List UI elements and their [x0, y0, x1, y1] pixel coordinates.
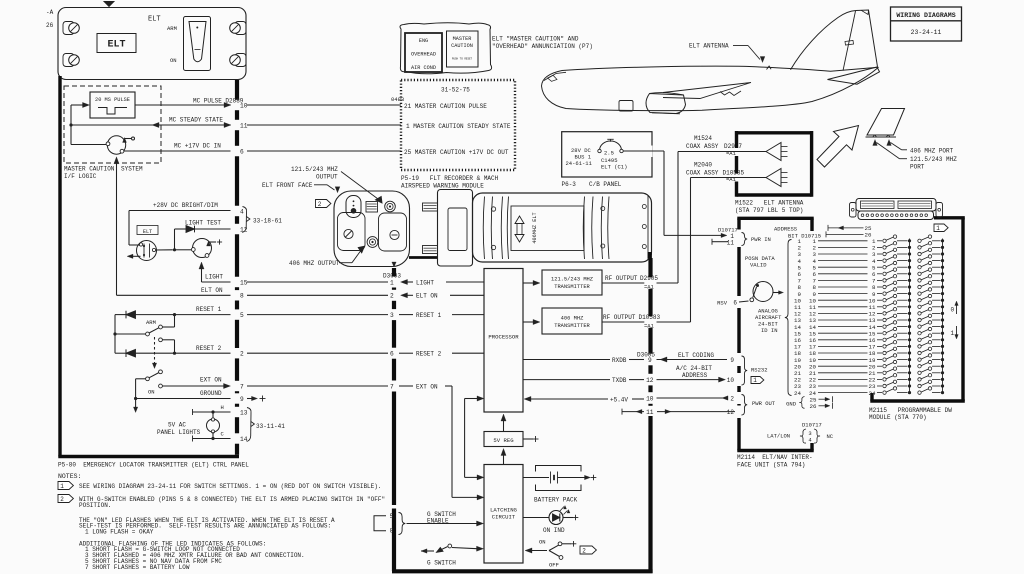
svg-text:WITH G-SWITCH ENABLED (PINS 5: WITH G-SWITCH ENABLED (PINS 5 & 8 CONNEC… — [79, 496, 385, 503]
svg-text:ENABLE: ENABLE — [427, 518, 449, 525]
svg-text:CIRCUIT: CIRCUIT — [492, 514, 516, 521]
svg-text:33-18-61: 33-18-61 — [253, 218, 282, 225]
svg-text:LATCHING: LATCHING — [490, 507, 517, 514]
svg-text:EXT ON: EXT ON — [200, 377, 222, 384]
svg-text:1 LONG FLASH = OKAY: 1 LONG FLASH = OKAY — [85, 529, 154, 536]
svg-text:P6-3: P6-3 — [562, 181, 577, 188]
svg-text:RF OUTPUT: RF OUTPUT — [605, 275, 638, 282]
svg-text:5V AC: 5V AC — [168, 422, 186, 429]
svg-text:0: 0 — [951, 307, 955, 314]
svg-text:COAX ASSY: COAX ASSY — [686, 170, 719, 177]
svg-text:ON: ON — [148, 389, 155, 396]
svg-text:ARM: ARM — [146, 319, 156, 326]
svg-text:406 MHZ OUTPUT: 406 MHZ OUTPUT — [289, 260, 340, 267]
svg-text:1: 1 — [390, 279, 394, 286]
svg-text:ID IN: ID IN — [761, 327, 778, 334]
svg-text:24: 24 — [869, 390, 876, 397]
svg-text:406 MHZ: 406 MHZ — [561, 316, 584, 322]
svg-text:4: 4 — [240, 208, 244, 215]
svg-text:RESET 1: RESET 1 — [196, 306, 222, 313]
svg-text:ON IND: ON IND — [543, 527, 565, 534]
svg-text:15: 15 — [240, 279, 248, 286]
svg-text:26: 26 — [810, 403, 817, 410]
svg-text:5: 5 — [240, 312, 244, 319]
svg-text:5: 5 — [390, 513, 394, 520]
svg-text:D10717: D10717 — [802, 422, 822, 429]
svg-text:ELT: ELT — [148, 16, 161, 24]
svg-text:VALID: VALID — [750, 262, 767, 269]
svg-text:MASTER: MASTER — [453, 36, 472, 42]
svg-text:11: 11 — [646, 409, 654, 416]
svg-text:1: 1 — [753, 377, 757, 384]
svg-text:P5-19 FLT RECORDER & MACH: P5-19 FLT RECORDER & MACH — [401, 175, 499, 182]
svg-text:BIT D10715: BIT D10715 — [788, 233, 821, 240]
svg-text:LIGHT: LIGHT — [416, 279, 434, 286]
svg-text:FACE UNIT (STA 794): FACE UNIT (STA 794) — [737, 461, 805, 468]
svg-text:LIGHT TEST: LIGHT TEST — [185, 220, 221, 227]
svg-text:TRANSMITTER: TRANSMITTER — [554, 284, 590, 290]
svg-text:26: 26 — [865, 232, 872, 239]
svg-text:24-61-11: 24-61-11 — [566, 160, 593, 167]
svg-text:PWR IN: PWR IN — [751, 236, 771, 243]
svg-text:2: 2 — [582, 547, 586, 554]
svg-text:CAUTION: CAUTION — [451, 43, 473, 49]
svg-text:12: 12 — [646, 377, 654, 384]
svg-text:RS232: RS232 — [751, 367, 768, 374]
svg-text:PANEL LIGHTS: PANEL LIGHTS — [157, 429, 201, 436]
svg-text:POSITION.: POSITION. — [79, 502, 111, 509]
svg-text:AIR COND: AIR COND — [411, 65, 436, 71]
svg-text:G SWITCH: G SWITCH — [427, 560, 456, 567]
svg-text:10: 10 — [727, 377, 735, 384]
svg-text:ELT CODING: ELT CODING — [678, 352, 714, 359]
svg-text:COAX ASSY: COAX ASSY — [686, 143, 719, 150]
svg-text:D3005: D3005 — [637, 352, 655, 359]
svg-text:ADDRESS: ADDRESS — [682, 372, 708, 379]
svg-text:OFF: OFF — [549, 562, 559, 569]
svg-text:+28V DC BRIGHT/DIM: +28V DC BRIGHT/DIM — [153, 202, 218, 209]
svg-text:31-52-75: 31-52-75 — [441, 87, 470, 94]
svg-text:11: 11 — [240, 122, 248, 129]
svg-text:RF OUTPUT: RF OUTPUT — [603, 314, 636, 321]
svg-text:6: 6 — [733, 300, 737, 307]
svg-text:6: 6 — [240, 148, 244, 155]
svg-text:MC +17V DC IN: MC +17V DC IN — [174, 143, 221, 150]
svg-text:"OVERHEAD" ANNUNCIATION (P7): "OVERHEAD" ANNUNCIATION (P7) — [492, 43, 593, 50]
svg-text:ON: ON — [539, 539, 546, 546]
svg-text:3: 3 — [390, 312, 394, 319]
svg-text:PORT: PORT — [910, 163, 925, 170]
svg-text:9: 9 — [730, 357, 734, 364]
svg-text:2: 2 — [390, 293, 394, 300]
svg-text:10: 10 — [646, 395, 654, 402]
svg-text:11: 11 — [727, 239, 735, 246]
svg-text:2: 2 — [318, 201, 322, 208]
svg-text:ELT ANTENNA: ELT ANTENNA — [689, 43, 729, 50]
svg-text:13: 13 — [240, 409, 248, 416]
svg-text:406MHZ ELT: 406MHZ ELT — [532, 212, 538, 243]
svg-text:7: 7 — [390, 383, 394, 390]
svg-text:SYSTEM: SYSTEM — [121, 166, 143, 173]
svg-text:ADDRESS: ADDRESS — [774, 226, 798, 233]
svg-text:8: 8 — [390, 528, 394, 535]
svg-text:ELT FRONT FACE: ELT FRONT FACE — [262, 182, 313, 189]
svg-text:MC PULSE D2889: MC PULSE D2889 — [193, 98, 244, 105]
svg-text:M2040: M2040 — [694, 162, 712, 169]
svg-text:MODULE (STA 770): MODULE (STA 770) — [869, 414, 927, 421]
svg-text:LAT/LON: LAT/LON — [767, 433, 790, 440]
svg-text:23-24-11: 23-24-11 — [911, 29, 942, 36]
svg-text:M1522 ELT ANTENNA: M1522 ELT ANTENNA — [735, 200, 804, 207]
svg-text:ELT: ELT — [143, 229, 152, 235]
svg-text:P5-80 EMERGENCY LOCATOR TRANS: P5-80 EMERGENCY LOCATOR TRANSMITTER (ELT… — [58, 462, 249, 469]
svg-text:SEE WIRING DIAGRAM 23-24-11 FO: SEE WIRING DIAGRAM 23-24-11 FOR SWITCH S… — [79, 483, 381, 490]
svg-text:WIRING DIAGRAMS: WIRING DIAGRAMS — [896, 12, 955, 19]
svg-text:12: 12 — [727, 409, 735, 416]
svg-text:C/B PANEL: C/B PANEL — [589, 181, 622, 188]
svg-text:RSV: RSV — [717, 300, 728, 307]
svg-text:6: 6 — [390, 351, 394, 358]
svg-text:PUSH TO RESET: PUSH TO RESET — [452, 58, 473, 61]
svg-text:NOTES:: NOTES: — [58, 473, 81, 480]
svg-text:25 MASTER CAUTION +17V DC OUT: 25 MASTER CAUTION +17V DC OUT — [404, 149, 509, 156]
svg-text:1: 1 — [936, 225, 940, 232]
svg-text:M2115 PROGRAMMABLE DW: M2115 PROGRAMMABLE DW — [869, 407, 952, 414]
svg-text:-A: -A — [46, 9, 54, 16]
svg-text:9: 9 — [648, 357, 652, 364]
svg-text:I/F LOGIC: I/F LOGIC — [64, 173, 97, 180]
svg-text:PWR OUT: PWR OUT — [752, 400, 776, 407]
svg-text:(STA 797 LBL 5 TOP): (STA 797 LBL 5 TOP) — [735, 207, 803, 214]
svg-text:RESET 2: RESET 2 — [416, 351, 442, 358]
svg-text:14: 14 — [240, 436, 248, 443]
svg-text:0483: 0483 — [391, 96, 404, 103]
svg-text:121.5/243 MHZ: 121.5/243 MHZ — [291, 166, 338, 173]
svg-text:ON: ON — [170, 57, 177, 64]
svg-text:ELT ON: ELT ON — [416, 293, 438, 300]
svg-text:MC STEADY STATE: MC STEADY STATE — [169, 117, 223, 124]
svg-text:2: 2 — [240, 351, 244, 358]
svg-text:121.5/243 MHZ: 121.5/243 MHZ — [910, 156, 957, 163]
svg-text:MASTER CAUTION: MASTER CAUTION — [64, 166, 115, 173]
svg-text:2: 2 — [60, 496, 64, 503]
svg-text:BATTERY PACK: BATTERY PACK — [534, 497, 578, 504]
svg-text:ELT ON: ELT ON — [201, 287, 223, 294]
svg-text:M1524: M1524 — [694, 135, 712, 142]
svg-text:33-11-41: 33-11-41 — [256, 423, 285, 430]
svg-text:A/C 24-BIT: A/C 24-BIT — [676, 365, 712, 372]
svg-text:+5.4V: +5.4V — [610, 396, 628, 403]
svg-text:GND: GND — [786, 400, 797, 407]
svg-text:GROUND: GROUND — [200, 390, 222, 397]
svg-text:ARM: ARM — [167, 25, 177, 32]
svg-text:RESET 1: RESET 1 — [416, 312, 442, 319]
svg-text:ELT (C1): ELT (C1) — [601, 163, 627, 170]
svg-text:ENG: ENG — [419, 38, 428, 44]
svg-text:7: 7 — [240, 383, 244, 390]
svg-text:D10717: D10717 — [718, 227, 738, 234]
svg-text:1 MASTER CAUTION STEADY STATE: 1 MASTER CAUTION STEADY STATE — [406, 123, 511, 130]
svg-text:1: 1 — [60, 483, 64, 490]
svg-text:M2114 ELT/NAV INTER-: M2114 ELT/NAV INTER- — [737, 454, 813, 461]
svg-text:EXT ON: EXT ON — [416, 383, 438, 390]
svg-text:OVERHEAD: OVERHEAD — [411, 52, 436, 58]
svg-text:24: 24 — [794, 390, 801, 397]
svg-text:2.5: 2.5 — [604, 149, 614, 156]
svg-text:1: 1 — [951, 330, 955, 337]
svg-text:8: 8 — [240, 293, 244, 300]
svg-text:OUTPUT: OUTPUT — [316, 173, 338, 180]
svg-text:ELT "MASTER CAUTION" AND: ELT "MASTER CAUTION" AND — [492, 36, 579, 43]
svg-text:LIGHT: LIGHT — [205, 274, 223, 281]
svg-text:AIRSPEED WARNING MODULE: AIRSPEED WARNING MODULE — [401, 182, 484, 189]
svg-text:26: 26 — [46, 22, 54, 29]
svg-text:PROCESSOR: PROCESSOR — [488, 334, 519, 341]
svg-text:5V REG: 5V REG — [493, 437, 514, 444]
svg-text:H: H — [221, 404, 224, 411]
svg-text:ELT: ELT — [107, 40, 125, 51]
svg-text:2: 2 — [730, 395, 734, 402]
svg-text:406 MHZ PORT: 406 MHZ PORT — [910, 147, 954, 154]
svg-text:TRANSMITTER: TRANSMITTER — [554, 323, 590, 329]
svg-text:121.5/243 MHZ: 121.5/243 MHZ — [551, 277, 594, 283]
svg-text:7 SHORT FLASHES = BATTERY LOW: 7 SHORT FLASHES = BATTERY LOW — [85, 564, 190, 571]
svg-text:21 MASTER CAUTION PULSE: 21 MASTER CAUTION PULSE — [404, 103, 487, 110]
svg-text:RXDB: RXDB — [612, 357, 627, 364]
svg-text:=A1: =A1 — [726, 150, 737, 157]
svg-text:RESET 2: RESET 2 — [196, 345, 222, 352]
svg-text:NC: NC — [827, 433, 834, 440]
svg-text:20 MS PULSE: 20 MS PULSE — [95, 97, 130, 103]
svg-text:TXDB: TXDB — [612, 377, 627, 384]
svg-text:9: 9 — [240, 396, 244, 403]
